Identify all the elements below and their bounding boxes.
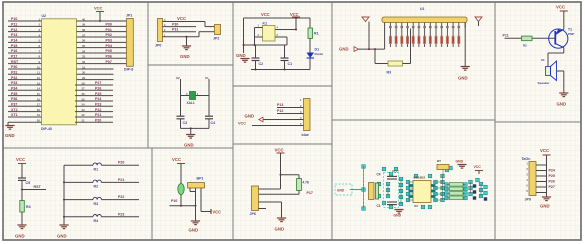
power flag right: [475, 17, 482, 22]
svg-text:P13: P13: [11, 33, 17, 37]
pin number 4: [300, 116, 302, 120]
svg-text:10: 10: [37, 65, 41, 69]
svg-text:S1: S1: [541, 58, 545, 62]
MCU pin 28 wire (P27): [75, 81, 113, 85]
MCU pin 35 wire to JP1: [77, 44, 127, 48]
svg-text:DIP-8: DIP-8: [124, 68, 133, 72]
svg-text:15: 15: [37, 92, 41, 96]
IC U2 AT89C51 DIP-40: [41, 14, 77, 131]
svg-text:VCC: VCC: [238, 122, 246, 126]
svg-text:JP1: JP1: [126, 14, 132, 18]
svg-text:C2: C2: [259, 62, 264, 66]
power VCC (speaker): [556, 5, 568, 30]
svg-text:12: 12: [37, 76, 41, 80]
svg-text:P10: P10: [11, 17, 17, 21]
MCU pin 25 wire (P24): [75, 97, 113, 101]
MCU pin 16 wire (P36): [8, 97, 42, 101]
wire TaOn pin 1: [526, 161, 546, 165]
pin number 1: [300, 98, 302, 102]
svg-text:P12: P12: [277, 109, 283, 113]
MCU pin 32 wire to JP1: [77, 60, 127, 64]
svg-text:P05: P05: [106, 49, 112, 53]
transistor T1 PNP: [549, 28, 575, 49]
ground (crystal): [184, 135, 195, 148]
crystal XTAL1: [181, 92, 210, 106]
resistor R4: [20, 190, 31, 226]
ground (TaOn): [540, 197, 551, 209]
svg-text:16: 16: [37, 97, 41, 101]
svg-text:JP0: JP0: [155, 44, 161, 48]
wire pin4 stub: [259, 208, 267, 210]
svg-text:P07: P07: [106, 60, 112, 64]
svg-text:P11: P11: [503, 33, 509, 37]
svg-text:39: 39: [82, 23, 86, 27]
svg-text:PNP: PNP: [568, 32, 574, 36]
svg-text:13: 13: [37, 81, 41, 85]
net label VCC: [177, 16, 186, 21]
MCU pin 31 wire: [77, 65, 114, 69]
svg-text:29: 29: [82, 76, 86, 80]
wire TaOn pin 4: [526, 178, 555, 184]
svg-text:R2: R2: [94, 185, 99, 189]
wire TaOn vertical: [546, 165, 548, 197]
svg-text:26: 26: [82, 92, 86, 96]
svg-text:U3: U3: [414, 204, 418, 208]
svg-text:VCC: VCC: [392, 170, 399, 174]
wire relay bottom: [251, 69, 310, 71]
MCU pin 22 wire (P21): [75, 113, 113, 117]
svg-text:P24: P24: [549, 169, 555, 173]
MCU pin 21 wire (P20): [75, 118, 113, 122]
ground (serial): [180, 37, 191, 59]
MCU pin 2 wire (P11): [8, 23, 42, 27]
svg-text:BT: BT: [437, 159, 441, 163]
MCU pin 37 wire to JP1: [77, 33, 127, 37]
svg-text:25: 25: [82, 97, 86, 101]
svg-text:P37: P37: [11, 102, 17, 106]
connector JP1 DIP-8: [124, 14, 133, 72]
svg-text:14: 14: [37, 87, 41, 91]
svg-text:P15: P15: [11, 44, 17, 48]
svg-text:Speaker: Speaker: [538, 81, 551, 85]
svg-text:P35: P35: [11, 92, 17, 96]
svg-text:P25: P25: [95, 92, 101, 96]
MCU pin 13 wire (P33): [8, 81, 42, 85]
svg-text:GND: GND: [339, 46, 349, 51]
MCU pin 3 wire (P12): [8, 28, 42, 32]
wire pullup bus: [63, 165, 65, 225]
svg-text:R4: R4: [26, 205, 31, 209]
DS18B20 PCB pads: [362, 165, 488, 211]
svg-text:U1: U1: [420, 7, 425, 11]
wire emitter: [548, 48, 564, 63]
svg-text:P20: P20: [118, 161, 124, 165]
capacitor C4: [205, 116, 215, 128]
DS wires: [350, 167, 481, 209]
power flag left: [362, 17, 369, 22]
svg-text:P36: P36: [11, 97, 17, 101]
pin number 2: [300, 104, 302, 108]
svg-text:P30: P30: [11, 65, 17, 69]
svg-text:31: 31: [82, 65, 86, 69]
capacitor C4 (DS): [377, 173, 398, 180]
wire K1 coil pins: [255, 25, 263, 45]
ground (DS top): [456, 160, 467, 169]
power VCC (MCU pin 40): [94, 6, 104, 23]
svg-text:BP1: BP1: [197, 177, 204, 181]
resistor R3: [387, 29, 411, 75]
wire TaOn pin 2: [526, 167, 555, 173]
svg-text:37: 37: [82, 33, 86, 37]
capacitor C5: [18, 178, 30, 190]
MCU pin 15 wire (P35): [8, 92, 42, 96]
resistor R4 (P23): [64, 212, 139, 223]
ground (P17): [275, 218, 287, 232]
svg-text:20: 20: [37, 119, 41, 123]
svg-text:P12: P12: [11, 28, 17, 32]
svg-text:P02: P02: [106, 33, 112, 37]
svg-text:C1: C1: [288, 62, 293, 66]
svg-text:38: 38: [82, 28, 86, 32]
capacitor C3: [177, 116, 188, 128]
resistor R1 (P20): [64, 161, 139, 172]
IC U1 display bar: [382, 7, 467, 23]
svg-text:P13: P13: [277, 103, 283, 107]
ground (speaker): [557, 93, 569, 107]
MCU pin 17 wire (P37): [8, 102, 42, 106]
MCU pin 20 wire (GND): [8, 119, 42, 123]
resistor R1: [308, 18, 319, 53]
svg-text:VCC: VCC: [275, 148, 284, 153]
svg-text:P06: P06: [106, 55, 112, 59]
svg-text:P33: P33: [11, 81, 17, 85]
pin number 5: [300, 122, 302, 126]
power VCC (P17): [275, 148, 285, 176]
resistor R2 (P21): [64, 178, 139, 189]
MCU pin 5 wire (P14): [8, 39, 42, 43]
svg-text:VCC: VCC: [540, 148, 549, 153]
svg-text:TaOn: TaOn: [522, 157, 531, 161]
wire JP0 pin1 to JP2 pin2: [163, 32, 215, 38]
ground (relay): [236, 53, 250, 62]
connector JP9 TaOn: [522, 157, 537, 202]
wire TaOn pin 5: [526, 183, 555, 189]
wire base: [505, 37, 556, 39]
svg-text:P16: P16: [11, 49, 17, 53]
net label P11: [503, 33, 509, 37]
svg-text:P17: P17: [307, 191, 313, 195]
svg-text:GND: GND: [15, 234, 25, 239]
svg-text:P03: P03: [106, 39, 112, 43]
svg-text:GND: GND: [540, 204, 550, 209]
MCU pin 14 wire (P34): [8, 86, 42, 90]
svg-text:C5: C5: [26, 181, 31, 185]
MCU pin 9 wire (RST): [8, 60, 42, 64]
svg-text:GND: GND: [189, 228, 199, 233]
svg-text:XAL1: XAL1: [187, 101, 195, 105]
power VCC (DS right): [474, 165, 484, 174]
wire relay left: [243, 18, 245, 53]
svg-text:P22: P22: [95, 108, 101, 112]
svg-text:18: 18: [37, 108, 41, 112]
svg-text:GND: GND: [557, 102, 567, 107]
wire TaOn pin 3: [526, 172, 555, 178]
svg-text:P27: P27: [95, 81, 101, 85]
wire to R6: [281, 175, 300, 179]
wire RST: [21, 185, 46, 191]
pin number 3: [300, 110, 302, 114]
MCU pin 34 wire to JP1: [77, 49, 127, 53]
svg-text:GND: GND: [184, 143, 194, 148]
wire pin3 to GND: [259, 202, 282, 218]
MCU pin 4 wire (P13): [8, 33, 42, 37]
MCU pin 27 wire (P26): [75, 86, 113, 90]
wire P12: [277, 109, 304, 113]
svg-text:JP2: JP2: [213, 37, 219, 41]
ground (MCU pin 20): [5, 122, 15, 138]
svg-text:P31: P31: [172, 28, 178, 32]
resistor R6: [297, 179, 310, 195]
svg-text:JP6: JP6: [250, 212, 256, 216]
DS18B20 dashed outlines: [335, 167, 399, 209]
MCU pin 38 wire to JP1: [77, 28, 127, 32]
svg-text:X2: X2: [176, 76, 180, 80]
wire P13: [277, 103, 304, 107]
svg-text:40: 40: [82, 17, 86, 21]
wire relay mid: [243, 44, 288, 46]
svg-text:P00: P00: [106, 23, 112, 27]
svg-text:GND: GND: [275, 227, 285, 232]
wire P31 stub: [163, 28, 197, 33]
MCU pin 24 wire (P23): [75, 102, 113, 106]
LED L1: [178, 184, 184, 206]
wire TaOn pin 6: [526, 189, 546, 193]
wire XTAL2 branch: [180, 79, 182, 116]
GND label (DS left): [337, 189, 345, 193]
wire relay top: [244, 17, 311, 19]
svg-text:P20: P20: [95, 118, 101, 122]
svg-text:21: 21: [82, 119, 86, 123]
svg-text:32: 32: [82, 60, 86, 64]
svg-text:P14: P14: [11, 39, 17, 43]
svg-text:17: 17: [37, 103, 41, 107]
wire pin1 to VCC: [259, 175, 281, 189]
relay K1: [263, 22, 276, 42]
resistor R2: [522, 36, 533, 47]
svg-text:P31: P31: [11, 71, 17, 75]
svg-text:34: 34: [82, 49, 86, 53]
svg-text:P30: P30: [172, 22, 178, 26]
svg-text:C1: C1: [377, 204, 381, 208]
ground (U1 right): [458, 67, 470, 81]
svg-text:P23: P23: [95, 102, 101, 106]
MCU pin 23 wire (P22): [75, 108, 113, 112]
ground (LED): [189, 221, 201, 233]
svg-text:P26: P26: [95, 86, 101, 90]
wire P17: [259, 191, 313, 195]
svg-text:P27: P27: [549, 185, 555, 189]
MCU pin 10 wire (P30): [8, 65, 42, 69]
svg-text:P32: P32: [11, 76, 17, 80]
svg-text:P11: P11: [11, 23, 17, 27]
svg-text:GND: GND: [180, 54, 190, 59]
MCU pin 6 wire (P15): [8, 44, 42, 48]
MCU pin 26 wire (P25): [75, 92, 113, 96]
svg-text:24: 24: [82, 103, 86, 107]
MCU pin 12 wire (P32): [8, 76, 42, 80]
annunciator BP1: [188, 177, 205, 192]
svg-text:U2: U2: [42, 14, 47, 18]
svg-text:VCC: VCC: [556, 5, 565, 10]
svg-text:Diode: Diode: [315, 52, 324, 56]
MCU pin 39 wire to JP1: [77, 23, 127, 27]
svg-text:P21: P21: [95, 113, 101, 117]
MCU pin 40 wire to JP1: [77, 17, 127, 21]
svg-text:VCC: VCC: [213, 210, 222, 215]
MCU pin 19 wire (XT1): [8, 113, 42, 117]
svg-text:XT1: XT1: [11, 113, 18, 117]
svg-text:C3: C3: [183, 121, 188, 125]
svg-text:P21: P21: [118, 178, 124, 182]
battery BT1: [437, 159, 449, 170]
svg-text:VCC: VCC: [177, 16, 186, 21]
svg-text:VCC: VCC: [474, 165, 482, 169]
svg-text:VCC: VCC: [261, 12, 270, 17]
MCU pin 18 wire (XT2): [8, 108, 42, 112]
MCU pin 11 wire (P31): [8, 71, 42, 75]
power VCC net label: [261, 12, 270, 17]
svg-text:P23: P23: [118, 212, 124, 216]
connector JP0: [155, 19, 163, 48]
MCU pin 8 wire (P17): [8, 55, 42, 59]
svg-text:DS18B2: DS18B2: [414, 176, 426, 180]
svg-text:P22: P22: [118, 195, 124, 199]
svg-text:GND: GND: [236, 53, 246, 58]
svg-text:GND: GND: [458, 76, 468, 81]
DS dark pads: [473, 184, 487, 200]
svg-text:VCC: VCC: [94, 6, 103, 11]
wire U1 right to GND: [464, 23, 466, 67]
svg-text:DIP-40: DIP-40: [41, 127, 52, 131]
svg-text:P26: P26: [549, 180, 555, 184]
MCU pin 1 wire (P10): [8, 17, 42, 21]
svg-text:VCC: VCC: [16, 157, 25, 162]
VCC label (DS): [392, 170, 399, 174]
svg-text:R2: R2: [523, 43, 527, 47]
MCU pin 33 wire to JP1: [77, 55, 127, 59]
svg-text:GND: GND: [5, 133, 15, 138]
connector JP2: [213, 25, 221, 41]
svg-text:T1: T1: [568, 28, 572, 32]
svg-text:X1: X1: [205, 76, 209, 80]
net label XT1: [205, 76, 209, 80]
svg-text:R4: R4: [94, 219, 99, 223]
svg-text:P17: P17: [11, 55, 17, 59]
connector JP6: [250, 186, 259, 216]
MCU pin 36 wire to JP1: [77, 39, 127, 43]
DS18B20 resistors: [450, 183, 464, 200]
power VCC (TaOn): [540, 148, 551, 165]
svg-text:P25: P25: [549, 174, 555, 178]
svg-text:K1: K1: [263, 22, 268, 26]
resistor R3 (P22): [64, 195, 139, 206]
wire VCC left drop: [368, 22, 370, 50]
capacitor C2: [252, 45, 264, 70]
svg-text:30: 30: [82, 71, 86, 75]
net label XT2: [176, 76, 180, 80]
svg-text:P24: P24: [95, 97, 101, 101]
capacitor C1: [281, 45, 293, 70]
wire P10 row: [170, 192, 197, 222]
svg-text:GND: GND: [337, 189, 345, 193]
svg-text:VCC: VCC: [172, 157, 181, 162]
power VCC (reset): [16, 157, 26, 178]
svg-text:28: 28: [82, 81, 86, 85]
svg-text:36: 36: [82, 39, 86, 43]
wire P30 stub: [163, 22, 197, 27]
power VCC (blue): [238, 122, 304, 126]
svg-text:P04: P04: [106, 44, 112, 48]
wire VCC right drop: [478, 22, 480, 27]
svg-text:RST: RST: [11, 60, 19, 64]
svg-text:P10: P10: [171, 199, 177, 203]
svg-text:P01: P01: [106, 28, 112, 32]
wire K1 contact pins: [275, 18, 297, 45]
svg-text:11: 11: [37, 71, 40, 75]
wire XTAL1 branch: [208, 79, 210, 116]
MCU pin 29 wire: [77, 76, 114, 80]
svg-text:C4: C4: [377, 173, 381, 177]
wire to R3: [375, 49, 388, 63]
svg-text:R1: R1: [94, 167, 99, 171]
svg-text:blue: blue: [302, 133, 309, 137]
DS connector footprint: [369, 183, 379, 200]
svg-text:P34: P34: [11, 86, 17, 90]
power VCC (relay): [290, 12, 300, 18]
svg-text:R3: R3: [94, 202, 99, 206]
wire BP1 to VCC port: [201, 192, 221, 215]
svg-text:VCC: VCC: [290, 12, 299, 17]
ground (DS bottom): [394, 210, 404, 218]
svg-text:GND: GND: [245, 114, 255, 119]
speaker S1: [538, 58, 557, 85]
svg-text:R3: R3: [387, 71, 392, 75]
wire join: [181, 127, 210, 134]
svg-text:33: 33: [82, 55, 86, 59]
svg-text:R1: R1: [314, 32, 319, 36]
MCU pin 7 wire (P16): [8, 49, 42, 53]
ground (pullup bus): [57, 225, 69, 239]
wire JP0 pin4 to JP2 pin1: [163, 18, 215, 27]
wire speaker to GND: [557, 71, 564, 93]
ground port (blue): [245, 114, 304, 122]
svg-text:4.7K: 4.7K: [303, 181, 310, 185]
svg-text:23: 23: [82, 108, 86, 112]
svg-text:35: 35: [82, 44, 86, 48]
svg-text:D1: D1: [315, 48, 320, 52]
svg-text:GND: GND: [456, 160, 464, 164]
svg-text:RST: RST: [34, 185, 42, 189]
power VCC (LED): [172, 157, 185, 184]
svg-text:27: 27: [82, 87, 86, 91]
ground (reset): [15, 225, 27, 239]
diode D1: [307, 48, 324, 70]
U1 pins with net labels: [385, 23, 466, 50]
connector JP5 blue: [302, 99, 311, 138]
svg-text:19: 19: [37, 113, 41, 117]
MCU pin 30 wire: [77, 71, 114, 75]
svg-text:22: 22: [82, 113, 86, 117]
